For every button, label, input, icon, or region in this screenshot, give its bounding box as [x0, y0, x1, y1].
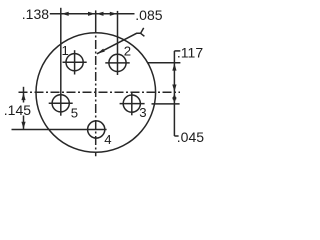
right side extension line pin2 row	[148, 62, 181, 64]
arrowhead .117 up	[172, 63, 176, 70]
pin 1 contact circle	[66, 54, 83, 71]
leader line to center	[97, 33, 141, 54]
stub to .045 text	[174, 135, 178, 137]
svg-text:.085: .085	[135, 7, 162, 23]
pin 5 crosshair horizontal	[49, 102, 73, 104]
arrowhead .085 left	[96, 12, 103, 16]
arrowhead .117 down	[172, 85, 176, 92]
pin 1 crosshair vertical	[74, 50, 76, 74]
arrowhead .085 right	[110, 12, 117, 16]
arrowhead .045 up	[172, 93, 176, 99]
pin 4 contact circle	[88, 121, 105, 138]
svg-text:.117: .117	[177, 45, 203, 61]
pin 2 contact circle	[109, 54, 126, 71]
pin 3 crosshair vertical	[131, 92, 133, 116]
pin 4 crosshair horizontal / extension line of .145 bottom	[12, 129, 107, 131]
right side extension line pin3 row	[152, 103, 180, 105]
pin 3 crosshair horizontal	[120, 103, 145, 105]
dimension line .145 (left vertical, broken by text)	[23, 87, 25, 103]
stub to .117 text	[174, 50, 180, 52]
pin 3 contact circle	[123, 95, 140, 112]
vertical centerline (dash-dot)	[95, 24, 97, 156]
svg-text:.138: .138	[22, 6, 49, 22]
pin 5 contact circle	[52, 95, 69, 112]
dimension line .138 / .085 (top)	[50, 13, 135, 15]
svg-text:4: 4	[104, 132, 111, 147]
svg-text:.045: .045	[177, 129, 204, 145]
vertical centerline solid top (extension tick B)	[95, 10, 97, 24]
leader tail hook	[141, 28, 145, 36]
leader arrowhead	[97, 49, 105, 54]
dimension line .117 / .045 (right vertical)	[173, 51, 175, 136]
pin 1 crosshair horizontal	[63, 61, 87, 63]
arrowhead .145 down	[21, 122, 25, 129]
svg-text:2: 2	[124, 43, 131, 58]
svg-text:5: 5	[71, 106, 78, 121]
svg-text:1: 1	[62, 43, 69, 58]
arrowhead .138 right	[88, 12, 95, 16]
arrowhead .045 down	[172, 97, 176, 103]
svg-text:3: 3	[139, 105, 146, 120]
connector body circle	[36, 33, 156, 153]
horizontal centerline (dash-dot)	[19, 91, 181, 93]
pin 2 crosshair vertical / extension line C to top dimension	[117, 11, 119, 75]
pin 2 crosshair horizontal	[105, 62, 129, 64]
svg-text:.145: .145	[4, 102, 31, 118]
arrowhead .145 up	[21, 93, 25, 100]
pin 5 crosshair vertical / extension line A to top dimension	[60, 8, 62, 116]
arrowhead .138 left	[62, 12, 69, 16]
